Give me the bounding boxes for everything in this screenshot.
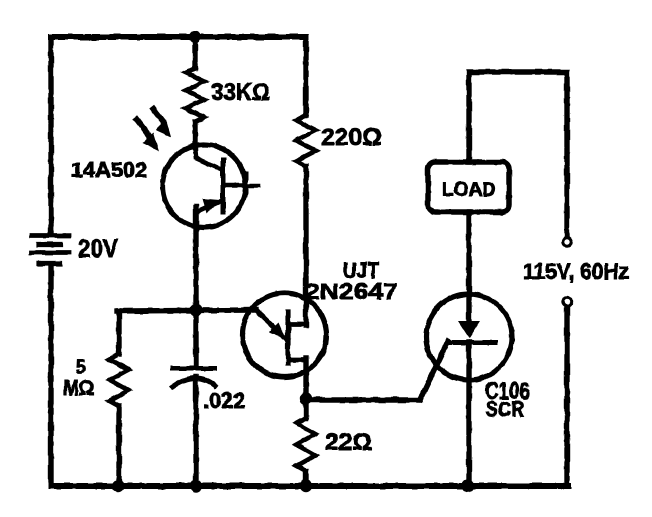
svg-text:14A502: 14A502	[71, 159, 147, 182]
svg-text:5: 5	[76, 357, 86, 377]
svg-text:LOAD: LOAD	[442, 179, 496, 201]
svg-text:2N2647: 2N2647	[305, 279, 398, 304]
svg-text:SCR: SCR	[486, 398, 524, 421]
svg-text:MΩ: MΩ	[63, 377, 94, 400]
svg-text:.022: .022	[203, 388, 245, 413]
svg-text:20V: 20V	[78, 235, 118, 263]
svg-text:115V, 60Hz: 115V, 60Hz	[523, 259, 629, 284]
svg-text:22Ω: 22Ω	[325, 429, 372, 456]
svg-text:220Ω: 220Ω	[321, 124, 382, 151]
svg-text:33KΩ: 33KΩ	[211, 79, 270, 106]
